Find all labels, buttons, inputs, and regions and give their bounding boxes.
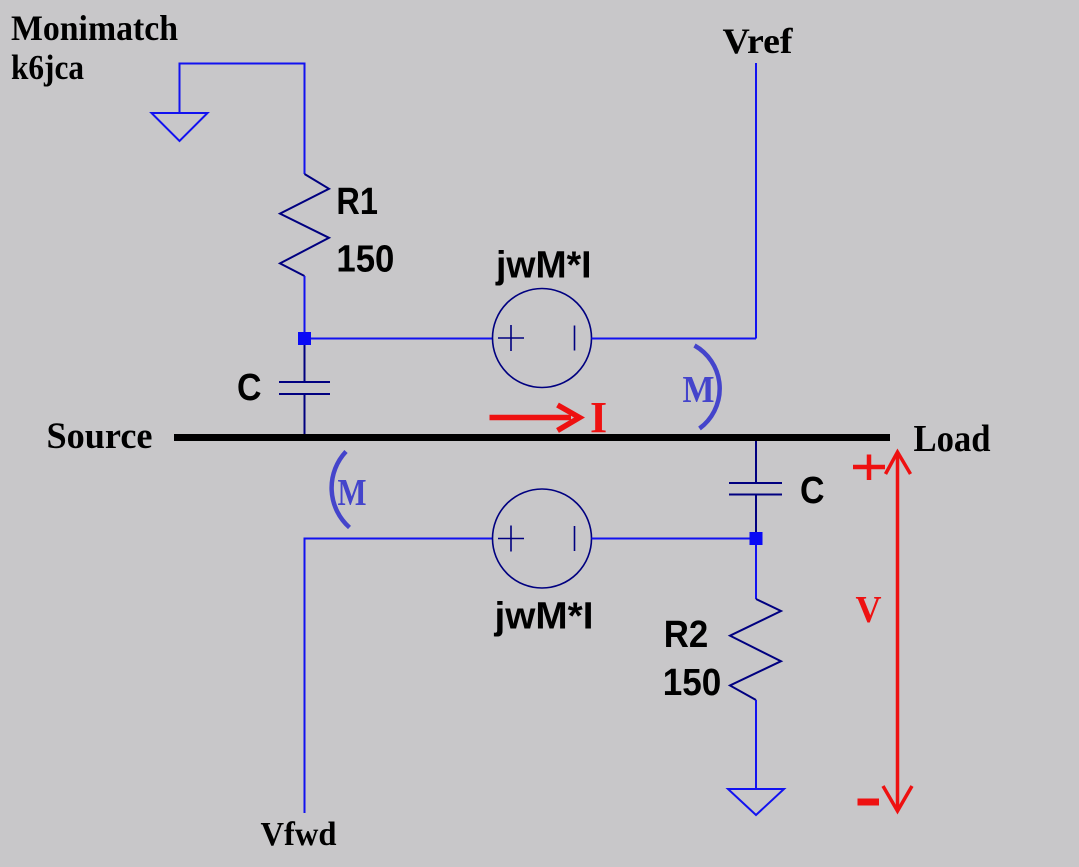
svg-text:jwM*I: jwM*I xyxy=(495,245,591,287)
wire Vref vertical xyxy=(755,63,757,339)
svg-text:Monimatch: Monimatch xyxy=(11,8,178,48)
wire bus to capacitor C2 xyxy=(755,441,757,483)
bus Source-Load xyxy=(174,434,890,441)
wire ground1 L-run xyxy=(180,64,305,175)
ground G1 xyxy=(152,113,208,141)
wire U1 to Vref line xyxy=(592,338,757,340)
svg-text:C: C xyxy=(800,470,825,512)
svg-text:150: 150 xyxy=(336,238,394,280)
coupling arc M (lower) xyxy=(332,452,350,528)
svg-text:R2: R2 xyxy=(664,614,709,656)
wire R1 to node A xyxy=(304,276,306,333)
svg-text:Source: Source xyxy=(47,416,153,457)
capacitor C1 xyxy=(279,382,330,394)
wire C2 to node B xyxy=(755,495,757,534)
ground G2 xyxy=(728,789,784,815)
svg-text:M: M xyxy=(683,369,715,411)
svg-text:V: V xyxy=(856,589,883,631)
resistor R1 xyxy=(280,174,329,276)
node A junction square xyxy=(298,332,311,345)
wire node B to R2 xyxy=(755,545,757,599)
svg-text:C: C xyxy=(237,367,262,409)
coupling arc M (upper) xyxy=(695,346,720,429)
svg-text:Vfwd: Vfwd xyxy=(261,816,337,853)
polarity minus (-) xyxy=(858,799,880,806)
capacitor C2 xyxy=(729,483,782,495)
svg-text:Load: Load xyxy=(914,418,991,460)
wire node A to source U1 xyxy=(311,338,493,340)
wire Vfwd run xyxy=(305,539,494,814)
node B junction square xyxy=(750,532,763,545)
wire node A to capacitor C1 xyxy=(304,345,306,382)
polarity plus (+) xyxy=(853,455,885,481)
svg-text:Vref: Vref xyxy=(723,21,794,61)
current arrow I xyxy=(490,405,580,431)
svg-text:k6jca: k6jca xyxy=(11,48,84,87)
dependent source U1 xyxy=(493,289,592,388)
wire C1 to bus xyxy=(304,394,306,435)
svg-text:jwM*I: jwM*I xyxy=(493,596,593,638)
svg-text:150: 150 xyxy=(663,662,722,704)
svg-text:R1: R1 xyxy=(336,181,378,223)
wire U2 to node B xyxy=(592,538,751,540)
voltage arrow V xyxy=(883,452,912,811)
svg-text:M: M xyxy=(338,472,367,514)
wire R2 to ground G2 xyxy=(755,700,757,789)
resistor R2 xyxy=(730,599,781,700)
dependent source U2 xyxy=(493,489,592,588)
